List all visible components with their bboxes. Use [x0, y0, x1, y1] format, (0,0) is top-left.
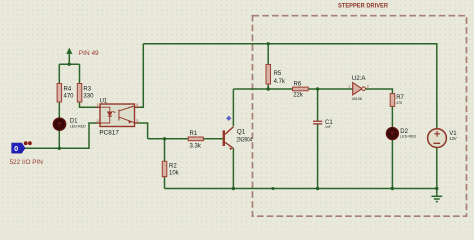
- svg-text:3: 3: [136, 119, 138, 123]
- svg-text:330: 330: [83, 93, 94, 99]
- wire: rail above R4/R3: [59, 63, 79, 65]
- wire: R3 bottom jog to U1 pin1: [80, 102, 101, 107]
- svg-text:10k: 10k: [169, 170, 180, 176]
- svg-text:2N3904: 2N3904: [237, 136, 253, 143]
- U1 pin stubs: [96, 107, 140, 123]
- junction: PIN 49 stem / R4-R3 rail: [68, 62, 71, 65]
- svg-text:PIN 49: PIN 49: [79, 50, 99, 57]
- svg-text:U1: U1: [100, 99, 108, 105]
- inverter U2:A: [348, 75, 369, 101]
- wire: Q1 collector up: [232, 89, 234, 126]
- svg-text:2: 2: [367, 85, 369, 89]
- wire: R2 stub from junction: [164, 139, 166, 162]
- wire: D2 to rail: [391, 139, 393, 188]
- wire: collector node to R6: [233, 88, 292, 90]
- capacitor C1: [313, 120, 333, 129]
- svg-text:R3: R3: [83, 87, 91, 93]
- junction: C1 / ground rail: [316, 187, 319, 190]
- junction: R5 / collector net: [267, 87, 270, 90]
- resistor R5: [266, 65, 286, 85]
- svg-text:PC817: PC817: [99, 130, 119, 137]
- svg-text:1: 1: [348, 85, 350, 89]
- battery V1: [428, 129, 458, 148]
- PIN 49 terminal arrow: [67, 48, 72, 53]
- wire: base wire to R1: [148, 138, 189, 140]
- transistor Q1: [223, 127, 253, 151]
- svg-text:4: 4: [136, 103, 138, 107]
- resistor R4: [57, 84, 74, 103]
- wire: Q1 emitter down: [232, 148, 234, 188]
- wire: V1 bottom to rail: [436, 148, 438, 189]
- wire: top power rail: [143, 44, 437, 129]
- U1 internal transistor: [119, 106, 135, 123]
- wire: R5 bottom stub: [267, 84, 269, 89]
- svg-text:Q1: Q1: [237, 129, 246, 136]
- marker dots: [24, 141, 28, 145]
- svg-text:U2:A: U2:A: [352, 75, 367, 82]
- junction: D1 / tag net: [58, 147, 61, 150]
- wire: R4 top stub: [58, 64, 60, 83]
- svg-text:R4: R4: [64, 87, 72, 93]
- svg-text:LED-RED: LED-RED: [400, 135, 416, 139]
- svg-text:4.7k: 4.7k: [274, 79, 286, 85]
- LED D1: [53, 118, 86, 130]
- wire: R3 top stub: [79, 64, 81, 83]
- resistor R7: [390, 94, 404, 107]
- wire: R2 bottom to ground rail: [164, 177, 166, 189]
- svg-text:40106: 40106: [352, 97, 362, 101]
- svg-text:1: 1: [97, 103, 99, 107]
- svg-text:R6: R6: [294, 82, 302, 88]
- ground: [431, 189, 442, 202]
- logic state tag 0: [12, 141, 32, 153]
- svg-text:1nF: 1nF: [325, 125, 331, 129]
- junction: C1 / gate input net: [316, 87, 319, 90]
- svg-text:STEPPER DRIVER: STEPPER DRIVER: [338, 3, 388, 10]
- stepper driver dashed boundary box: [253, 16, 467, 217]
- svg-text:470: 470: [64, 93, 75, 99]
- wire: R4 bottom to D1: [58, 102, 60, 119]
- blue diamond marker: [226, 116, 231, 121]
- wire: U2 output to R7: [366, 89, 393, 94]
- resistor R6: [293, 82, 309, 99]
- junction: D2 / ground rail: [391, 187, 394, 190]
- svg-text:R5: R5: [274, 71, 282, 77]
- wire: C1 bottom to rail: [317, 125, 319, 189]
- junction: R2 / base wire: [163, 137, 166, 140]
- resistor R2: [162, 161, 179, 176]
- wire: R5 top stub: [267, 44, 269, 65]
- junction: stray dot on ground rail: [272, 187, 275, 190]
- svg-text:D1: D1: [70, 119, 78, 125]
- wire: D1 to tag net: [58, 130, 60, 149]
- LED D2: [386, 128, 416, 140]
- svg-text:LED-RED: LED-RED: [70, 125, 86, 129]
- wire: bottom ground rail: [165, 188, 437, 190]
- junction: V1 / ground rail: [435, 187, 438, 190]
- opto-coupler U1: [96, 99, 140, 137]
- resistor R1: [188, 131, 203, 150]
- svg-text:R7: R7: [396, 95, 404, 101]
- junction: R5 / top rail: [267, 42, 270, 45]
- wire: C1 top stub: [317, 89, 319, 121]
- svg-text:522 I/O PIN: 522 I/O PIN: [10, 159, 44, 166]
- U1 internal LED: [100, 107, 115, 123]
- wire: R6 to U2 input: [308, 88, 353, 90]
- svg-text:0: 0: [14, 144, 18, 153]
- junction: Q1 emitter / ground rail: [232, 187, 235, 190]
- svg-text:3.3k: 3.3k: [190, 144, 202, 150]
- wire: R7 to D2: [391, 106, 393, 127]
- wire: tag to U1 pin2: [25, 123, 100, 148]
- wire: PIN 49 stem: [68, 53, 70, 64]
- svg-text:22k: 22k: [293, 92, 304, 98]
- svg-text:R1: R1: [190, 131, 198, 137]
- wire: R1 to Q1 base: [203, 138, 223, 140]
- svg-text:R2: R2: [169, 164, 177, 170]
- resistor R3: [77, 84, 94, 103]
- svg-text:2: 2: [97, 119, 99, 123]
- wire: U1 pin4 up to top rail: [135, 44, 144, 107]
- svg-text:470: 470: [396, 101, 402, 105]
- svg-text:12V: 12V: [449, 136, 457, 141]
- wire: U1 pin3 down to base wire: [135, 123, 148, 139]
